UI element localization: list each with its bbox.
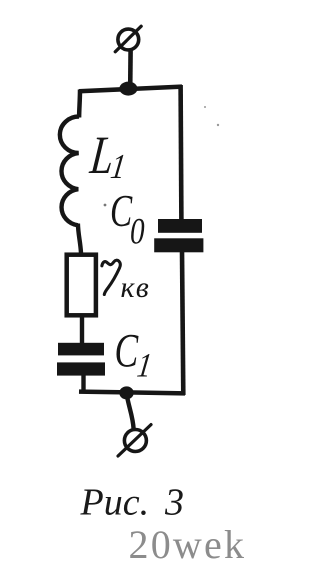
wire top horizontal — [79, 87, 182, 92]
wire top stub — [128, 50, 133, 89]
wire right vertical upper — [178, 85, 183, 221]
inductor L1 (coil, 3 bumps) — [60, 116, 79, 225]
wire right vertical lower — [182, 251, 183, 395]
node junction bottom — [119, 386, 133, 399]
label L1 — [87, 126, 128, 186]
speck (scan noise) — [104, 204, 107, 207]
wire crystal to C1 — [80, 314, 84, 345]
svg-text:3: 3 — [164, 482, 184, 524]
terminal T2 (bottom output, circle with slash) — [118, 425, 151, 456]
svg-text:Рис.: Рис. — [80, 482, 150, 524]
wire bottom stub — [127, 393, 134, 429]
capacitor C0 plate bottom — [154, 238, 203, 252]
caption Puc. 3 — [80, 482, 185, 524]
wire left vertical upper — [77, 90, 82, 118]
label C0 — [110, 186, 145, 252]
node junction top — [119, 82, 137, 96]
label Zkv — [102, 260, 150, 304]
capacitor C0 plate top — [158, 219, 202, 233]
crystal Zkv (quartz resonator rectangle) — [67, 255, 96, 316]
wire C1 to bottom rail — [81, 374, 85, 393]
wire bottom horizontal — [79, 392, 185, 394]
capacitor C1 plate bottom — [57, 362, 105, 375]
capacitor C1 plate top — [58, 343, 104, 356]
speck (scan noise) — [217, 124, 219, 126]
speck (scan noise) — [204, 106, 206, 108]
svg-text:0: 0 — [130, 211, 145, 252]
svg-text:кв: кв — [121, 271, 150, 304]
svg-text:20wek: 20wek — [129, 522, 247, 567]
terminal T1 (top input, circle with slash) — [115, 26, 141, 52]
wire coil to crystal — [78, 224, 81, 254]
label C1 — [115, 324, 155, 384]
svg-text:C: C — [115, 324, 139, 377]
